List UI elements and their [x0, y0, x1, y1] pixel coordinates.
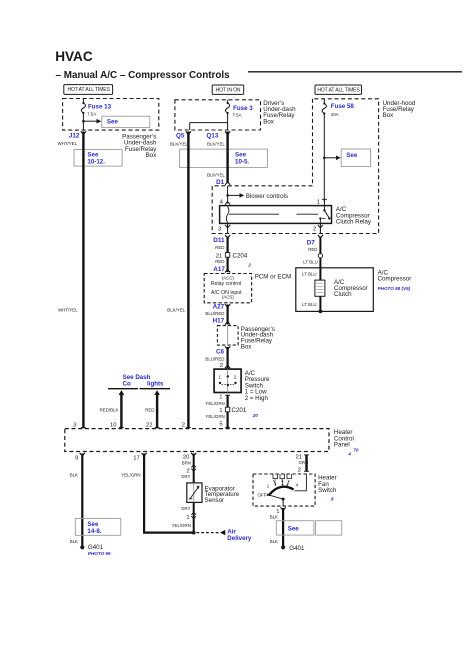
svg-text:See: See [87, 151, 99, 158]
svg-text:C6: C6 [216, 348, 225, 355]
svg-text:Compressor: Compressor [378, 276, 412, 283]
svg-text:2: 2 [182, 423, 185, 429]
svg-text:14-8.: 14-8. [87, 528, 101, 535]
svg-text:RED: RED [308, 247, 317, 252]
svg-text:A27: A27 [213, 304, 225, 311]
svg-text:BLK/YEL: BLK/YEL [207, 173, 225, 178]
svg-text:YEL/GRN: YEL/GRN [205, 414, 224, 419]
svg-text:PCM or ECM: PCM or ECM [255, 273, 291, 280]
svg-text:PHOTO 58 (V6): PHOTO 58 (V6) [378, 286, 411, 291]
svg-text:8: 8 [331, 496, 334, 501]
svg-text:PHOTO 96: PHOTO 96 [88, 551, 111, 556]
svg-text:Q13: Q13 [207, 133, 219, 140]
svg-text:RED/BLK: RED/BLK [100, 407, 119, 412]
svg-text:5: 5 [219, 421, 223, 427]
svg-text:70: 70 [353, 447, 359, 452]
svg-text:BRN: BRN [182, 461, 191, 466]
svg-text:GRY: GRY [181, 474, 191, 479]
svg-text:4: 4 [220, 200, 224, 206]
svg-text:lights: lights [147, 380, 164, 387]
svg-text:BLK: BLK [270, 515, 278, 520]
svg-text:4: 4 [347, 452, 351, 457]
svg-text:D7: D7 [307, 240, 316, 247]
svg-text:Relay control: Relay control [211, 281, 241, 287]
svg-text:HVAC: HVAC [55, 49, 93, 64]
svg-text:Clutch: Clutch [334, 291, 352, 298]
svg-text:GRN: GRN [299, 460, 309, 465]
svg-text:10: 10 [110, 423, 117, 429]
svg-text:Box: Box [383, 112, 395, 119]
svg-text:BLK/YEL: BLK/YEL [167, 307, 185, 312]
svg-text:HOT AT ALL TIMES: HOT AT ALL TIMES [67, 87, 110, 93]
svg-text:2: 2 [313, 227, 316, 233]
svg-text:BLK: BLK [70, 539, 78, 544]
svg-text:2 = High: 2 = High [245, 395, 269, 402]
svg-text:Fuse 58: Fuse 58 [331, 103, 355, 110]
svg-text:Q5: Q5 [176, 133, 185, 140]
svg-text:Fuse 13: Fuse 13 [88, 104, 112, 111]
svg-text:Co: Co [123, 380, 131, 387]
svg-text:9: 9 [75, 455, 78, 461]
svg-text:BLK/YEL: BLK/YEL [170, 141, 188, 146]
svg-text:Panel: Panel [334, 442, 350, 449]
svg-text:RED: RED [215, 259, 224, 264]
svg-text:GRY: GRY [181, 506, 191, 511]
svg-text:17: 17 [133, 455, 140, 461]
svg-text:4: 4 [296, 482, 299, 487]
svg-text:– Manual A/C – Compressor Cont: – Manual A/C – Compressor Controls [56, 70, 231, 81]
svg-text:BLU/RED: BLU/RED [205, 311, 224, 316]
svg-text:LT BLU: LT BLU [303, 260, 317, 265]
svg-text:OFF: OFF [258, 493, 267, 498]
svg-text:LT BLU: LT BLU [302, 302, 316, 307]
svg-text:Clutch Relay: Clutch Relay [336, 219, 372, 226]
svg-text:(ACC): (ACC) [222, 275, 235, 280]
svg-text:22: 22 [146, 423, 153, 429]
svg-text:3: 3 [73, 423, 77, 429]
svg-text:7.5A: 7.5A [87, 112, 96, 117]
svg-text:2: 2 [247, 262, 251, 267]
svg-text:YEL/GRN: YEL/GRN [121, 472, 140, 477]
svg-text:G401: G401 [289, 545, 305, 552]
svg-text:1: 1 [218, 374, 221, 379]
svg-text:See: See [235, 152, 247, 159]
svg-text:See: See [346, 152, 358, 159]
svg-text:D11: D11 [213, 237, 225, 244]
svg-text:(ACS): (ACS) [222, 295, 234, 300]
svg-text:3: 3 [218, 227, 222, 233]
svg-text:LT BLU: LT BLU [302, 272, 316, 277]
svg-text:WHT/YEL: WHT/YEL [58, 141, 78, 146]
svg-text:Box: Box [146, 152, 158, 159]
svg-text:D1: D1 [216, 179, 225, 186]
svg-text:H17: H17 [213, 317, 225, 324]
svg-text:2: 2 [234, 374, 237, 379]
svg-text:Delivery: Delivery [227, 535, 252, 542]
svg-text:See: See [107, 118, 119, 125]
svg-text:1: 1 [267, 484, 270, 489]
svg-text:WHT/YEL: WHT/YEL [58, 307, 78, 312]
svg-text:1: 1 [186, 515, 189, 521]
svg-text:BLK: BLK [270, 539, 278, 544]
svg-text:7.5A: 7.5A [233, 112, 242, 117]
svg-text:HOT IN ON: HOT IN ON [216, 87, 241, 93]
svg-text:10-12.: 10-12. [87, 158, 105, 165]
svg-text:C204: C204 [233, 252, 248, 259]
svg-text:RED: RED [215, 245, 224, 250]
svg-text:BLK/YEL: BLK/YEL [207, 141, 225, 146]
svg-text:Sensor: Sensor [205, 497, 225, 504]
svg-text:J12: J12 [69, 133, 80, 140]
svg-text:20A: 20A [331, 112, 339, 117]
svg-text:1: 1 [219, 395, 222, 401]
svg-text:Box: Box [241, 343, 253, 350]
svg-text:YEL/GRN: YEL/GRN [205, 401, 224, 406]
svg-text:BLK: BLK [70, 472, 78, 477]
svg-text:Switch: Switch [318, 487, 337, 494]
svg-text:Fuse 3: Fuse 3 [233, 105, 253, 112]
svg-text:2: 2 [298, 467, 301, 473]
svg-text:BLU/RED: BLU/RED [205, 357, 224, 362]
svg-text:RED: RED [145, 407, 154, 412]
svg-text:Blower controls: Blower controls [246, 193, 288, 200]
svg-text:20: 20 [252, 413, 259, 418]
svg-text:C201: C201 [232, 407, 247, 414]
svg-text:See: See [87, 521, 99, 528]
svg-text:2: 2 [220, 363, 223, 369]
svg-text:10-5.: 10-5. [235, 159, 249, 166]
svg-text:HOT AT ALL TIMES: HOT AT ALL TIMES [317, 87, 360, 93]
svg-text:YEL/GRN: YEL/GRN [172, 523, 191, 528]
svg-text:Box: Box [263, 118, 275, 125]
svg-text:1: 1 [317, 200, 320, 206]
svg-text:A17: A17 [213, 266, 225, 273]
svg-text:See: See [288, 525, 300, 532]
